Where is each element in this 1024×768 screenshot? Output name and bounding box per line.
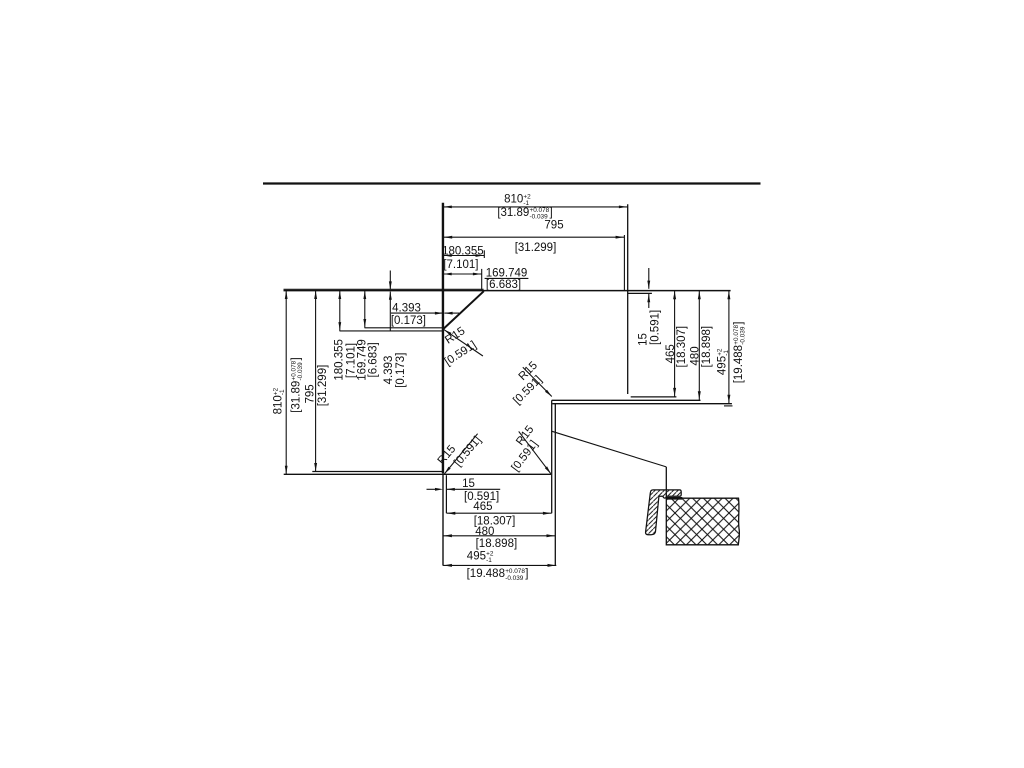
dimension 810 top (443, 206, 628, 208)
svg-text:-1: -1 (279, 389, 286, 395)
leader line to detail view (552, 431, 666, 467)
dimension 795 top (443, 236, 624, 238)
svg-text:]: ] (525, 568, 528, 580)
underline 169.749 (485, 277, 529, 279)
dimension 169.749 left vertical (364, 290, 366, 328)
outline: right wing bottom sink line B (552, 403, 732, 405)
dimension 180.355 left vertical (339, 290, 341, 331)
svg-text:465: 465 (473, 501, 492, 513)
dimension 180.355 top (443, 255, 484, 257)
svg-text:[31.299]: [31.299] (515, 242, 557, 254)
ext 180.355 right (483, 250, 485, 258)
outline: left wing bottom sink line (long) (284, 473, 551, 475)
label [31.89] top (497, 207, 552, 221)
detail: sink rim profile (hatched) (646, 490, 682, 535)
svg-text:[18.898]: [18.898] (701, 326, 713, 368)
svg-text:795: 795 (544, 220, 563, 232)
label 495 right (717, 348, 731, 375)
svg-text:[0.173]: [0.173] (391, 315, 426, 327)
svg-text:[18.307]: [18.307] (676, 326, 688, 368)
label 495 bottom (467, 551, 494, 565)
svg-text:-1: -1 (486, 557, 492, 564)
outline: bottom arm right edge (cutout) (551, 400, 553, 513)
svg-text:[0.591]: [0.591] (650, 310, 662, 345)
svg-text:15: 15 (638, 333, 650, 346)
outline: bottom arm cutout-offset line (445, 475, 447, 513)
svg-text:[31.89: [31.89 (497, 207, 529, 219)
outline: right wing bottom line A (552, 399, 701, 401)
svg-text:]: ] (291, 357, 303, 360)
outline: right wing cutout top tick (628, 292, 652, 294)
svg-text:15: 15 (462, 478, 475, 490)
dimension 495 right vertical (728, 291, 730, 404)
dimension 795 left vertical (315, 290, 317, 471)
svg-text:810: 810 (504, 193, 523, 205)
svg-text:-1: -1 (523, 200, 529, 207)
svg-text:4.393: 4.393 (383, 356, 395, 385)
dimension 169.749 top (443, 273, 482, 275)
detail: countertop cross-section (crosshatched) (666, 498, 739, 545)
svg-text:495: 495 (467, 551, 486, 563)
svg-text:-1: -1 (723, 350, 730, 356)
dimension 480 right vertical (698, 291, 700, 401)
dimension 480 bottom (443, 535, 555, 537)
svg-text:[0.173]: [0.173] (395, 353, 407, 388)
fillet leader R15 top-left corner (444, 330, 483, 356)
ext 169.749 right (481, 269, 483, 291)
label 810 left (273, 387, 287, 414)
outline: vertical band left edge (merged double) (442, 203, 444, 473)
dimension 810 left vertical (285, 290, 287, 474)
svg-text:[31.89: [31.89 (291, 381, 303, 413)
outline: chamfer diagonal top-left corner (443, 291, 484, 329)
svg-text:-0.039: -0.039 (505, 575, 524, 582)
svg-text:480: 480 (689, 346, 701, 365)
outline: fillet at right wing inner corner (628, 394, 631, 397)
svg-text:495: 495 (717, 356, 729, 375)
dimension 15 bottom (outside arrows) (427, 488, 438, 490)
outline: right wing cutout bottom line (631, 396, 677, 398)
dimension 495 bottom (443, 564, 556, 566)
leader vertical into detail (665, 467, 667, 498)
svg-text:4.393: 4.393 (392, 302, 421, 314)
svg-text:[31.299]: [31.299] (317, 365, 329, 407)
svg-text:[19.488: [19.488 (467, 568, 505, 580)
outline: right wing inner edge vertical (627, 204, 629, 394)
svg-text:[7.101]: [7.101] (443, 259, 478, 271)
ext 795 right (623, 235, 625, 290)
svg-text:-0.039: -0.039 (740, 326, 747, 345)
svg-text:465: 465 (665, 344, 677, 363)
svg-text:]: ] (550, 207, 553, 219)
outline: left wing bottom cutout line (312, 471, 443, 473)
ext 169.749 bottom (365, 327, 444, 329)
svg-text:180.355: 180.355 (334, 339, 346, 381)
svg-text:169.749: 169.749 (486, 267, 528, 279)
svg-text:795: 795 (304, 384, 316, 403)
ext 495 bottom tick (724, 405, 733, 407)
fillet leader R15 center corner (523, 367, 552, 396)
svg-text:180.355: 180.355 (442, 246, 484, 258)
svg-text:480: 480 (475, 526, 494, 538)
label [19.488] bottom (467, 568, 529, 582)
dimension 4.393 left vertical (outside arrows) (389, 271, 391, 290)
svg-text:[6.683]: [6.683] (486, 279, 521, 291)
svg-text:810: 810 (273, 395, 285, 414)
fillet leader R15 bottom-left corner (444, 434, 477, 474)
svg-text:[18.898]: [18.898] (476, 538, 518, 550)
dimension 15 right (outside arrows) (648, 268, 650, 289)
svg-text:]: ] (733, 321, 745, 324)
detail: rim contact thick line (666, 497, 682, 500)
svg-text:-0.039: -0.039 (297, 362, 304, 381)
outline: sink top edge (left, double/merged thick) (284, 288, 484, 290)
label [31.89] left (291, 357, 305, 412)
outline: bottom arm right edge (sink) (554, 404, 556, 566)
svg-text:[6.683]: [6.683] (368, 342, 380, 377)
dimension 465 bottom (447, 512, 552, 514)
label 810 top (504, 193, 531, 207)
top border rule (263, 182, 761, 184)
dimension 4.393 horizontal at corner (391, 312, 443, 314)
label [19.488] right (733, 321, 747, 383)
dimension 465 right vertical (674, 291, 676, 397)
outline: bottom arm left edge / extension (442, 473, 444, 566)
svg-text:[19.488: [19.488 (733, 345, 745, 383)
ext 180.355 bottom (340, 330, 444, 332)
fillet leader R15 bottom-right corner (519, 431, 551, 473)
